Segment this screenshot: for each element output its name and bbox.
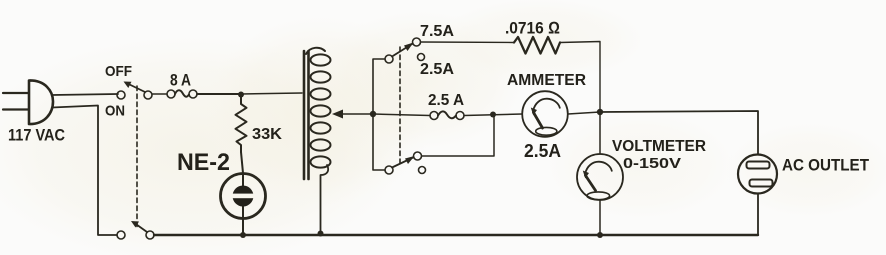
resistor R1 33K <box>236 97 247 152</box>
wire fuse to node A <box>197 93 241 95</box>
label ON <box>105 103 125 120</box>
label NE-2 <box>177 149 230 176</box>
node B junction dot <box>370 111 376 117</box>
wire ammeter to node D <box>568 112 600 114</box>
wire node B to fuse F2 <box>373 114 430 116</box>
switch S2a upper pole <box>385 38 425 63</box>
wire node A to transformer <box>241 93 302 94</box>
node NE-2 bottom junction dot <box>240 232 246 238</box>
label OFF <box>105 63 132 80</box>
variac wiper arrow <box>332 110 373 119</box>
AC plug P1 <box>3 80 53 124</box>
fuse F2 2.5A <box>430 111 464 119</box>
label AMMETER <box>507 72 586 89</box>
svg-text:2.5A: 2.5A <box>524 141 561 161</box>
svg-text:NE-2: NE-2 <box>177 149 230 176</box>
transformer T1 core <box>304 51 309 179</box>
node T1 bottom junction dot <box>318 231 324 237</box>
wire plug top lead <box>52 94 118 95</box>
label 2.5A meter <box>524 141 561 161</box>
svg-text:117 VAC: 117 VAC <box>8 126 65 145</box>
svg-text:AC OUTLET: AC OUTLET <box>782 156 870 175</box>
svg-text:0-150V: 0-150V <box>623 155 681 172</box>
bottom rail wire <box>154 234 758 236</box>
label 2.5A upper contact <box>420 61 454 78</box>
wire T1 bottom lead <box>321 165 329 233</box>
wire plug bottom lead down to bottom rail <box>52 106 117 236</box>
label AC OUTLET <box>782 156 870 175</box>
ammeter M1 <box>522 91 568 137</box>
wire node D to AC outlet top <box>600 111 758 155</box>
fuse F1 8A <box>152 90 197 98</box>
node D junction dot <box>597 109 603 115</box>
voltmeter M2 branch <box>577 112 623 236</box>
label 117 VAC <box>8 126 65 145</box>
gang dashed link S1 <box>136 86 138 228</box>
svg-text:2.5A: 2.5A <box>420 61 454 78</box>
svg-text:.0716 Ω: .0716 Ω <box>505 19 560 38</box>
label 8A <box>170 71 191 90</box>
svg-text:8 A: 8 A <box>170 71 191 90</box>
AC outlet J1 <box>738 155 777 236</box>
node voltmeter bottom junction dot <box>597 232 603 238</box>
label 0-150V <box>623 155 681 172</box>
svg-text:OFF: OFF <box>105 63 132 80</box>
label 2.5A fuse <box>428 92 464 109</box>
svg-text:VOLTMETER: VOLTMETER <box>612 138 706 155</box>
wire selector vertical bus <box>373 59 385 170</box>
switch S2b lower pole <box>385 152 426 174</box>
switch S1b lower pole <box>117 221 154 239</box>
switch S1a upper pole OFF/ON <box>117 82 152 100</box>
wire S2b contact to node C <box>422 114 495 156</box>
svg-text:ON: ON <box>105 103 125 120</box>
label VOLTMETER <box>612 138 706 155</box>
svg-text:2.5 A: 2.5 A <box>428 92 464 109</box>
node C junction dot <box>490 112 496 118</box>
label .0716 ohm <box>505 19 560 38</box>
neon lamp NE-2 <box>221 152 266 235</box>
svg-text:33K: 33K <box>252 126 282 143</box>
gang dashed link S2 <box>399 47 401 166</box>
svg-text:AMMETER: AMMETER <box>507 72 586 89</box>
node A junction dot <box>238 92 244 98</box>
resistor R2 .0716 ohm shunt rail <box>421 37 601 112</box>
wire fuse F2 to ammeter <box>464 114 522 116</box>
label 33K <box>252 126 282 143</box>
svg-text:7.5A: 7.5A <box>420 23 454 40</box>
transformer T1 winding <box>306 48 331 168</box>
label 7.5A <box>420 23 454 40</box>
